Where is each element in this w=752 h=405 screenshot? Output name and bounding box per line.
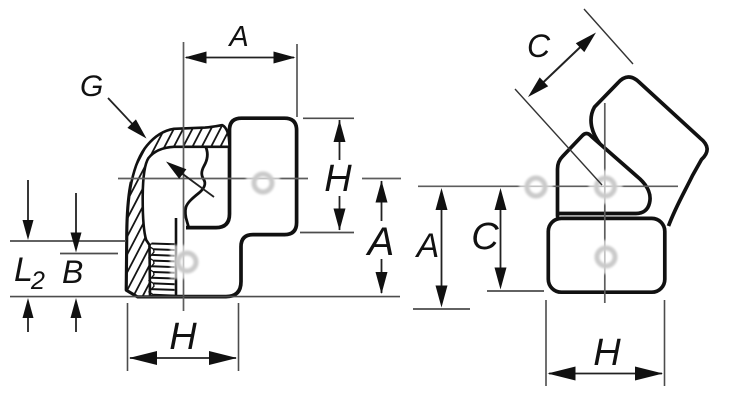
leader G to thread bore — [180, 172, 214, 197]
svg-text:G: G — [80, 70, 103, 103]
svg-text:2: 2 — [30, 267, 45, 295]
dim H arrow shafts — [339, 120, 341, 160]
svg-text:B: B — [62, 254, 83, 290]
watermark ring 5 — [589, 240, 623, 274]
thread bore right edge line — [175, 218, 178, 296]
dim H-right arrowheads — [548, 367, 576, 381]
svg-text:C: C — [527, 28, 551, 64]
sectioned wall region with hatch (left elbow cross-section) — [127, 125, 230, 297]
dim B lower arrow — [75, 316, 77, 332]
left vertical centerline — [183, 42, 185, 311]
female thread profile ridges — [152, 243, 175, 246]
right vertical centerline — [604, 103, 606, 303]
dim B top tick — [60, 253, 118, 255]
dim L2 upper arrow — [27, 180, 29, 222]
dim H-right extensions — [545, 300, 547, 386]
watermark ring 4 — [589, 170, 623, 204]
svg-text:A: A — [227, 21, 248, 53]
bottom reference line — [10, 296, 400, 298]
svg-text:H: H — [593, 332, 621, 374]
dim H-right arrow line — [549, 373, 662, 375]
dim L2 top tick — [10, 240, 126, 242]
right horizontal centerline — [418, 185, 678, 187]
dim A top extension right — [296, 44, 298, 117]
dim H ticks — [303, 117, 354, 119]
dim C-right shaft — [500, 205, 502, 272]
hatch lines of section — [28, 118, 431, 320]
dim C-diag extension at port face — [584, 9, 633, 64]
svg-text:H: H — [324, 158, 352, 200]
dim A top arrowheads — [185, 52, 207, 64]
dim C-right arrowheads — [495, 188, 507, 210]
watermark ring 2 — [170, 245, 204, 279]
inner cast lobe edge (wavy line) — [185, 148, 207, 227]
dim A-right arrowheads — [436, 188, 448, 210]
dim L2 lower arrow — [27, 316, 29, 332]
dim H-bottom arrow line — [130, 357, 236, 359]
dim H arrowheads — [334, 120, 346, 142]
svg-text:H: H — [169, 316, 197, 358]
right fitting lower port bank (rounded square) — [548, 218, 665, 292]
left horizontal centerline — [118, 178, 308, 180]
right fitting middle body (pentagon with 45-degree faces) — [558, 134, 651, 217]
watermark ring 1 — [246, 166, 280, 200]
dim C-diag arrow — [541, 45, 583, 85]
right fitting 45-degree port bank (tilted, open path with blend into body) — [591, 77, 707, 226]
svg-text:A: A — [366, 220, 395, 264]
dim B upper arrow — [75, 193, 77, 235]
dim A top arrow line — [186, 57, 294, 59]
dim H-bottom extensions — [127, 303, 129, 371]
dim C-diag extension through center — [515, 89, 602, 185]
leader G to outer surface — [108, 98, 138, 130]
section outline stroke — [127, 125, 230, 297]
dim A-right shaft — [441, 205, 443, 290]
dim A-vert arrowheads — [376, 181, 388, 203]
dim A-vert shafts — [381, 181, 383, 221]
left fitting body outline (90 deg elbow, banks and bottom face) — [127, 118, 297, 296]
dim C-right tick — [487, 290, 544, 292]
watermark ring 3 — [519, 170, 553, 204]
dim A-right tick — [413, 308, 470, 310]
svg-text:A: A — [415, 227, 440, 265]
svg-text:C: C — [471, 216, 499, 258]
thread crest zigzag — [149, 244, 154, 295]
dim H-bottom arrowheads — [129, 351, 157, 365]
